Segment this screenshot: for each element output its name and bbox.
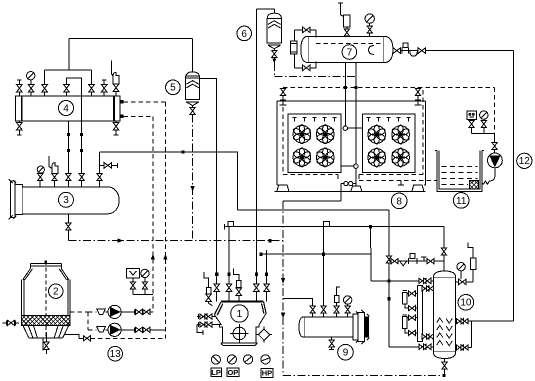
- riser into oil separator 5: [191, 38, 193, 72]
- vessel 9 drain valve: [329, 337, 334, 349]
- valve V4g bottom right: [113, 121, 118, 135]
- oil level bypass on vessel 7: [291, 27, 317, 70]
- tank liquid dashes: [442, 167, 478, 185]
- suction manifold y254.2: [259, 253, 371, 256]
- dip tube hook: [369, 46, 374, 55]
- svg-text:6: 6: [241, 29, 247, 40]
- wire through vessel 4 down to vessel 3: [81, 96, 83, 187]
- dashed cooling water line lower: [124, 115, 153, 117]
- tower fill band crosshatch: [22, 315, 70, 325]
- liquid line from receiver: [393, 43, 514, 56]
- wire 9a 9b into shell: [313, 313, 324, 316]
- flow arrow down: [190, 186, 194, 192]
- label circle 4: [59, 101, 74, 116]
- suction loop corner to filter 6: [256, 9, 274, 13]
- motor diamond: [256, 327, 272, 343]
- label circle 2: [49, 284, 63, 298]
- dash-dot bottom run y375.4: [283, 374, 444, 376]
- gauge by VSD: [141, 269, 149, 277]
- vessel 7 receiver shell: [301, 36, 393, 62]
- oil separator 9 stem 2 riser: [323, 227, 325, 306]
- pump suction dashed: [70, 312, 97, 330]
- spray pump 12: [488, 153, 503, 168]
- pump P1: [105, 305, 121, 318]
- compressor stem C suction: [254, 284, 259, 301]
- label circle 1: [231, 305, 248, 322]
- label circle 9: [338, 344, 354, 360]
- tank heater hatch: [470, 180, 479, 189]
- fan 2b: [391, 125, 410, 144]
- compressor stem D: [264, 250, 269, 301]
- fan 2d: [391, 148, 410, 167]
- flow arrows up: [151, 254, 168, 260]
- dash-dot drain header y240.6: [68, 240, 283, 242]
- wire discharge top line: [69, 37, 192, 39]
- air cooler box 1: [288, 114, 341, 172]
- valve V4b top riser: [42, 70, 47, 96]
- compressor stem B: [226, 227, 231, 302]
- vessel 5 drain valve: [190, 106, 195, 115]
- svg-text:5: 5: [170, 83, 176, 94]
- overflow to dashed return: [64, 335, 165, 341]
- header bottom tie: [422, 334, 434, 339]
- vessel 3 channel head plate: [9, 179, 23, 219]
- equalizer line y226.6: [225, 222, 444, 230]
- water tank 11: [435, 150, 484, 191]
- level cylinder 2: [402, 315, 417, 336]
- dashed riser x165.4: [164, 102, 166, 338]
- vessel 4 condenser body: [16, 96, 121, 121]
- gauge PI on vessel 4: [27, 72, 35, 97]
- svg-text:8: 8: [396, 196, 402, 207]
- spray water dashed header: [283, 87, 495, 89]
- air cooler box 2: [363, 114, 415, 172]
- valve V4d top riser: [89, 70, 94, 96]
- valve 9b: [321, 306, 326, 313]
- cooling jacket stub upper: [197, 314, 216, 319]
- fan 1c: [292, 148, 311, 167]
- union dot on header: [181, 151, 184, 154]
- feed valves into vessel 10: [419, 278, 431, 283]
- junction dot: [387, 279, 390, 282]
- union dots on stems: [215, 273, 268, 276]
- level column header: [418, 285, 423, 341]
- pump P2: [105, 323, 121, 336]
- gauge on vessel 9: [344, 296, 352, 317]
- svg-text:9: 9: [343, 348, 349, 359]
- dashed drop to pump 12: [494, 88, 496, 134]
- gauge mid: [244, 355, 253, 364]
- vessel 3 drain valve: [66, 214, 71, 241]
- svg-text:10: 10: [460, 298, 472, 309]
- label circle 7: [342, 45, 357, 60]
- defrost branch with twin valves: [283, 182, 356, 201]
- label circle 3: [59, 192, 74, 207]
- fan 2c: [367, 148, 386, 167]
- LP label box: [211, 368, 221, 377]
- gauge on vessel 7: [365, 14, 374, 36]
- dashed cooling water line upper: [124, 101, 166, 103]
- OP label box: [227, 368, 239, 377]
- label circle 11: [453, 193, 469, 209]
- strainer P1: [97, 309, 106, 315]
- drip marks box1: [293, 118, 337, 122]
- frame floor line: [275, 190, 426, 192]
- flow arrow right: [118, 238, 124, 242]
- flywheel symbol: [230, 324, 249, 343]
- vessel 6 filter: [267, 13, 281, 49]
- long suction line x256.4: [255, 9, 257, 284]
- fan 1a: [292, 125, 311, 144]
- pump P1 discharge with check valves: [121, 309, 153, 314]
- vessel 5 outlet to riser: [200, 79, 217, 153]
- frame feet: [277, 185, 424, 191]
- strainer P2: [97, 327, 106, 333]
- dash-dot oil drain x192.6: [192, 115, 194, 241]
- compressor relief vent: [233, 269, 241, 302]
- jacket bracket: [197, 325, 203, 336]
- header top tie: [422, 286, 434, 291]
- gauge OP: [227, 355, 236, 364]
- vessel 9 oil separator shell: [299, 310, 370, 344]
- svg-text:2: 2: [53, 287, 59, 298]
- fan 1b: [316, 125, 335, 144]
- label circle 8: [391, 193, 407, 209]
- label circle 10: [458, 295, 474, 311]
- junction dot: [268, 239, 271, 242]
- cooling tower lid: [30, 260, 61, 268]
- safety valve on vessel 7: [338, 3, 350, 36]
- purge branch with valve: [100, 163, 118, 168]
- drain tee mark: [398, 181, 404, 185]
- svg-text:LP: LP: [211, 368, 221, 377]
- label circle 13: [108, 346, 123, 361]
- defrost line to vessel10 bottom left: [389, 344, 433, 349]
- vessel 6 drain valve: [272, 49, 277, 63]
- cold room dashed enclosure: [283, 90, 423, 179]
- cooling tower shoulders: [23, 269, 69, 280]
- svg-text:OP: OP: [227, 368, 238, 377]
- compressor unloader: [204, 272, 212, 306]
- spray pump 12 valve: [492, 134, 497, 153]
- lower outlet loop: [456, 321, 472, 350]
- gauge LP: [211, 355, 220, 364]
- oil return from separator 9: [283, 299, 313, 306]
- pump P2 discharge with check valves: [121, 327, 165, 332]
- liquid branch y261.2: [389, 254, 444, 266]
- right liquid drop x513.6: [513, 51, 515, 322]
- gauge by controls: [480, 111, 488, 119]
- drip marks box2: [367, 118, 411, 122]
- cooling tower walls: [22, 280, 70, 316]
- gauge stem on vessel 3: [37, 166, 44, 187]
- control switch box: [467, 111, 477, 120]
- label circle 12: [517, 153, 532, 168]
- dash-dot oil return from 6: [274, 63, 355, 76]
- valve 9a: [310, 306, 315, 313]
- wire x370.8 to header feed: [371, 227, 434, 281]
- pump 12 discharge to tank: [482, 168, 495, 184]
- valve V4a top: [17, 80, 22, 96]
- svg-text:11: 11: [456, 196, 467, 207]
- TEV assembly: [456, 243, 476, 285]
- coil zigzags: [437, 318, 452, 346]
- vessel 10 intercooler shell: [433, 271, 455, 359]
- feed valve into vessel 10 dome: [441, 227, 446, 272]
- cooling jacket stub lower: [197, 322, 220, 327]
- wire vessel4 bottom to vessel3: [67, 121, 69, 187]
- relief valve on vessel 4: [111, 60, 119, 96]
- junction dots on spray header: [344, 86, 358, 89]
- fan 2a: [367, 125, 386, 144]
- liquid level dashed in vessel 7: [316, 43, 384, 45]
- spray valve right: [414, 88, 421, 105]
- dash-dot defrost drop x283.1: [282, 201, 284, 376]
- compressor suction stem A: [214, 152, 219, 302]
- relief regulator on vessel 3: [49, 156, 58, 187]
- valve on vessel 3 inlet c: [66, 170, 71, 187]
- VSD control box: [127, 268, 140, 278]
- fan 1d: [316, 148, 335, 167]
- drain dashed to tank: [359, 180, 437, 182]
- hot gas riser to vessel 4 manifold: [45, 38, 92, 70]
- svg-text:HP: HP: [262, 369, 272, 378]
- wire drop to vessel 3: [99, 152, 101, 173]
- tower drain valve: [43, 332, 49, 354]
- svg-text:13: 13: [110, 349, 122, 360]
- level cylinder 1: [402, 291, 417, 311]
- hot gas branch to y210: [217, 152, 389, 210]
- svg-text:4: 4: [63, 103, 69, 114]
- svg-text:1: 1: [236, 308, 242, 320]
- node flange dots vessel4 right: [120, 100, 124, 118]
- svg-text:7: 7: [347, 47, 353, 58]
- svg-text:12: 12: [519, 156, 531, 167]
- condenser downcomer B: [341, 63, 358, 186]
- cooling tower 2 centerline: [45, 261, 47, 337]
- valve V4f bottom left: [17, 121, 22, 135]
- svg-text:3: 3: [63, 195, 69, 206]
- vessel 5 oil separator: [186, 72, 200, 106]
- dashed riser x152.9: [152, 116, 154, 312]
- flow arrows down on defrost drop: [281, 278, 285, 319]
- pi-loop over vessel 4: [67, 78, 82, 96]
- spray valve left: [280, 88, 287, 105]
- tower basin: [23, 326, 69, 338]
- label circle 6: [237, 26, 252, 41]
- valve on vessel 3 inlet d: [79, 170, 84, 187]
- hot gas drop x389: [386, 210, 391, 347]
- label circle 5: [166, 80, 181, 95]
- evaporator frame: [277, 101, 425, 185]
- compressor 1 body: [214, 302, 266, 346]
- vessel 3 shell: [22, 187, 119, 214]
- valve V4c top: [64, 78, 69, 96]
- condenser downcomer A: [343, 63, 363, 131]
- valve on vessel 3 inlet e: [97, 174, 102, 187]
- valve V4e top: [102, 80, 107, 96]
- gauge HP: [261, 355, 270, 364]
- control stems to manifold: [469, 119, 495, 133]
- HP label box: [261, 368, 273, 377]
- hot gas header y152: [100, 151, 217, 153]
- suction outlet y321.2: [456, 319, 514, 324]
- vessel 10 drain valve: [442, 359, 447, 378]
- thermostat on vessel 9: [334, 287, 340, 317]
- VSD stems with valves: [130, 278, 153, 295]
- union dots on condensate drops: [67, 133, 83, 152]
- makeup water dashed with valve: [3, 320, 22, 325]
